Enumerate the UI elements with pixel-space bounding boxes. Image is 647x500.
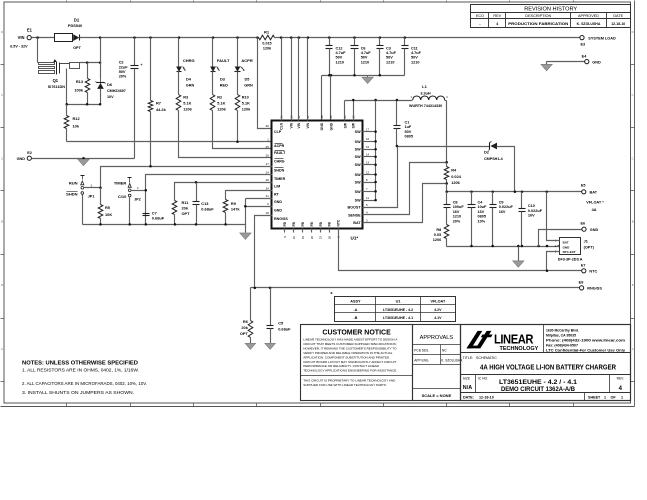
svg-text:16V: 16V <box>453 210 460 214</box>
svg-text:D5: D5 <box>245 78 250 82</box>
svg-text:R2: R2 <box>217 95 222 99</box>
svg-text:E7: E7 <box>581 264 586 268</box>
svg-text:CUSTOMER NOTICE: CUSTOMER NOTICE <box>322 330 391 337</box>
svg-text:R3: R3 <box>183 95 188 99</box>
svg-text:SUPPLIED FOR USE WITH LINEAR T: SUPPLIED FOR USE WITH LINEAR TECHNOLOGY … <box>303 383 387 387</box>
svg-text:10k: 10k <box>73 123 80 128</box>
svg-text:GND: GND <box>17 157 26 161</box>
svg-text:SCHEMATIC: SCHEMATIC <box>476 356 497 360</box>
svg-text:BOOST: BOOST <box>347 206 361 210</box>
svg-text:FB: FB <box>283 221 287 226</box>
svg-text:50V: 50V <box>386 56 393 60</box>
svg-text:100uF: 100uF <box>453 205 465 209</box>
svg-text:1uF: 1uF <box>405 125 412 129</box>
svg-text:+: + <box>141 63 143 67</box>
svg-text:0.68uF: 0.68uF <box>201 207 214 212</box>
svg-text:J1: J1 <box>584 239 588 243</box>
svg-text:VFLOAT *: VFLOAT * <box>586 200 604 204</box>
svg-text:1210: 1210 <box>453 215 461 219</box>
svg-text:K. SZOLUSHA: K. SZOLUSHA <box>577 22 601 26</box>
svg-text:TIMER: TIMER <box>114 181 127 186</box>
svg-text:17: 17 <box>366 127 370 131</box>
svg-text:A: A <box>1 347 3 351</box>
svg-text:C8: C8 <box>453 200 458 204</box>
svg-text:C12: C12 <box>336 46 343 50</box>
svg-text:FAULT: FAULT <box>274 151 286 155</box>
svg-text:147k: 147k <box>231 206 240 211</box>
svg-text:0.68uF: 0.68uF <box>278 326 291 331</box>
svg-text:20: 20 <box>310 236 314 240</box>
svg-text:FB: FB <box>319 221 323 226</box>
svg-text:C2: C2 <box>119 61 124 65</box>
svg-text:OPT: OPT <box>182 211 191 216</box>
svg-text:-B: -B <box>354 316 358 320</box>
svg-text:CHRG: CHRG <box>274 160 285 164</box>
svg-text:1206: 1206 <box>433 238 441 242</box>
svg-text:R5: R5 <box>105 205 111 210</box>
svg-text:C6: C6 <box>361 46 366 50</box>
svg-text:SHDN: SHDN <box>66 192 77 197</box>
svg-text:U1*: U1* <box>351 235 359 240</box>
svg-text:1206: 1206 <box>242 108 250 112</box>
svg-text:Q1: Q1 <box>53 78 59 83</box>
svg-text:GRN: GRN <box>186 84 195 88</box>
svg-text:VIN: VIN <box>306 122 310 128</box>
svg-text:GND: GND <box>590 228 599 232</box>
svg-text:NOTES: UNLESS OTHERWISE SPECIF: NOTES: UNLESS OTHERWISE SPECIFIED <box>22 361 138 367</box>
svg-text:FAULT: FAULT <box>217 58 230 63</box>
svg-text:3. INSTALL SHUNTS ON JUMPERS A: 3. INSTALL SHUNTS ON JUMPERS AS SHOWN. <box>22 390 134 395</box>
svg-text:0.024: 0.024 <box>451 174 462 179</box>
svg-text:ECO: ECO <box>476 14 484 18</box>
svg-text:4.7uF: 4.7uF <box>411 51 422 55</box>
svg-text:28: 28 <box>328 236 332 240</box>
svg-text:27: 27 <box>266 162 270 166</box>
svg-text:BAT: BAT <box>353 221 361 225</box>
svg-text:0.022uF: 0.022uF <box>499 205 514 209</box>
svg-text:WURTH 744314330: WURTH 744314330 <box>409 104 442 108</box>
svg-text:R4: R4 <box>451 168 457 173</box>
svg-text:C9: C9 <box>499 200 504 204</box>
svg-text:SW: SW <box>355 140 361 144</box>
svg-text:R12: R12 <box>73 116 81 121</box>
svg-text:CMPSH1-4: CMPSH1-4 <box>484 157 504 161</box>
svg-text:D: D <box>1 30 3 34</box>
svg-text:C5: C5 <box>278 320 284 325</box>
svg-text:(OPT): (OPT) <box>584 245 595 249</box>
svg-text:10V: 10V <box>107 95 114 99</box>
svg-text:16: 16 <box>366 137 370 141</box>
svg-text:NTC: NTC <box>337 219 341 226</box>
svg-text:SW: SW <box>355 199 361 203</box>
svg-text:0805: 0805 <box>405 135 413 139</box>
svg-text:GND: GND <box>592 60 601 64</box>
svg-text:5.1K: 5.1K <box>242 102 250 106</box>
svg-text:4: 4 <box>496 22 498 26</box>
svg-text:D6: D6 <box>107 82 113 87</box>
svg-text:0.015: 0.015 <box>262 41 271 45</box>
svg-text:36: 36 <box>266 124 270 128</box>
svg-text:CLN: CLN <box>279 122 283 129</box>
svg-text:20%: 20% <box>119 75 127 79</box>
svg-text:SW: SW <box>343 122 347 128</box>
svg-text:4.7uF: 4.7uF <box>361 51 372 55</box>
svg-text:10: 10 <box>292 236 296 240</box>
svg-text:IC NO.: IC NO. <box>478 376 488 380</box>
svg-text:APPLICATION. COMPONENT SUBSTI: APPLICATION. COMPONENT SUBSTITUTION AND … <box>303 355 390 359</box>
svg-text:34: 34 <box>266 186 270 190</box>
svg-text:SW: SW <box>355 173 361 177</box>
svg-text:CMHZ4697: CMHZ4697 <box>107 89 126 93</box>
svg-text:D2: D2 <box>484 149 490 154</box>
svg-text:A: A <box>632 347 634 351</box>
svg-text:PDS540: PDS540 <box>68 24 82 28</box>
svg-text:100k: 100k <box>74 88 83 93</box>
svg-text:PERFORMANCE OR RELIABILITY. C: PERFORMANCE OR RELIABILITY. CONTACT LINE… <box>303 364 379 368</box>
svg-text:APP ENG.: APP ENG. <box>414 359 429 363</box>
svg-text:LINEAR: LINEAR <box>494 332 533 346</box>
svg-text:6.5V - 32V: 6.5V - 32V <box>10 45 28 49</box>
svg-text:TECHNOLOGY: TECHNOLOGY <box>500 346 539 352</box>
svg-text:4.7uF: 4.7uF <box>386 51 397 55</box>
svg-text:1210: 1210 <box>386 60 394 64</box>
svg-text:B: B <box>1 283 3 287</box>
svg-text:C: C <box>632 157 634 161</box>
svg-text:LT3651EUHE - 4.2 / - 4.1: LT3651EUHE - 4.2 / - 4.1 <box>499 379 578 386</box>
svg-text:10uF: 10uF <box>478 205 488 209</box>
svg-text:NC: NC <box>442 349 447 353</box>
svg-text:1: 1 <box>621 396 623 400</box>
svg-text:20k: 20k <box>182 205 189 210</box>
svg-text:50V: 50V <box>411 56 418 60</box>
svg-text:19: 19 <box>301 236 305 240</box>
svg-text:LT3651EUHE - 4.2: LT3651EUHE - 4.2 <box>383 308 413 312</box>
svg-text:44.2k: 44.2k <box>156 107 167 112</box>
svg-text:4A HIGH VOLTAGE LI-ION BATTERY: 4A HIGH VOLTAGE LI-ION BATTERY CHARGER <box>480 365 616 372</box>
svg-text:R8: R8 <box>436 228 441 232</box>
svg-text:GRN: GRN <box>244 84 253 88</box>
svg-text:10%: 10% <box>478 220 486 224</box>
svg-text:4.2V: 4.2V <box>434 308 442 312</box>
svg-text:JP2: JP2 <box>134 198 141 202</box>
svg-text:1. ALL RESISTORS ARE IN OHMS,: 1. ALL RESISTORS ARE IN OHMS, 0402, 1%, … <box>22 368 139 373</box>
svg-text:GND: GND <box>274 208 282 212</box>
svg-text:12: 12 <box>366 170 370 174</box>
svg-text:THIS CIRCUIT IS PROPRIETARY TO: THIS CIRCUIT IS PROPRIETARY TO LINEAR TE… <box>303 378 396 382</box>
svg-text:SW: SW <box>355 163 361 167</box>
svg-text:31: 31 <box>306 115 310 119</box>
svg-text:R6: R6 <box>243 319 249 324</box>
svg-text:SHEET: SHEET <box>588 396 601 400</box>
svg-text:50V: 50V <box>119 70 126 74</box>
svg-text:REV: REV <box>493 14 501 18</box>
svg-text:C: C <box>1 93 3 97</box>
svg-text:NTC-EXT: NTC-EXT <box>563 250 576 254</box>
svg-text:FB: FB <box>301 221 305 226</box>
svg-text:SIZE: SIZE <box>463 376 471 380</box>
svg-text:SYSTEM LOAD: SYSTEM LOAD <box>588 36 616 40</box>
svg-text:REV.: REV. <box>617 376 625 380</box>
svg-text:E2: E2 <box>27 151 32 155</box>
svg-text:4.7uF: 4.7uF <box>336 51 347 55</box>
svg-text:R7: R7 <box>156 101 161 106</box>
svg-text:SENSE: SENSE <box>348 213 361 217</box>
svg-text:18: 18 <box>266 211 270 215</box>
svg-text:OF: OF <box>611 396 617 400</box>
svg-text:4A: 4A <box>592 208 597 212</box>
svg-text:0.68uF: 0.68uF <box>152 216 165 221</box>
svg-text:B: B <box>1 220 3 224</box>
svg-text:B: B <box>632 220 634 224</box>
svg-text:VIN: VIN <box>18 35 25 40</box>
svg-text:D3: D3 <box>220 78 225 82</box>
svg-text:3.3uH: 3.3uH <box>420 91 431 95</box>
svg-text:ACPR: ACPR <box>241 58 252 63</box>
svg-text:RUN: RUN <box>69 180 78 185</box>
svg-text:L1: L1 <box>422 84 427 89</box>
svg-text:SCALE = NONE: SCALE = NONE <box>422 393 452 398</box>
svg-text:APPROVED: APPROVED <box>578 14 599 18</box>
svg-text:LT3651EUHE - 4.1: LT3651EUHE - 4.1 <box>383 316 413 320</box>
svg-text:C3: C3 <box>386 46 391 50</box>
svg-text:0.05: 0.05 <box>434 233 441 237</box>
svg-text:B: B <box>632 283 634 287</box>
svg-text:HOWEVER, IT REMAINS THE CUSTOM: HOWEVER, IT REMAINS THE CUSTOMER'S RESPO… <box>303 346 397 350</box>
svg-text:5.1K: 5.1K <box>183 102 191 106</box>
svg-text:VIN: VIN <box>297 122 301 128</box>
svg-text:24: 24 <box>266 171 270 175</box>
svg-text:E6: E6 <box>580 221 585 225</box>
svg-text:RED: RED <box>220 84 228 88</box>
svg-text:VIN: VIN <box>290 122 294 128</box>
svg-text:22: 22 <box>343 115 347 119</box>
svg-text:50V: 50V <box>336 56 343 60</box>
svg-text:DATE:: DATE: <box>463 396 474 400</box>
svg-text:C/10: C/10 <box>118 194 127 199</box>
svg-text:ACPR: ACPR <box>274 144 285 148</box>
svg-text:16V: 16V <box>499 210 506 214</box>
svg-text:0.022uF: 0.022uF <box>528 209 543 213</box>
svg-text:2. ALL CAPACITORS ARE IN MICRO: 2. ALL CAPACITORS ARE IN MICROFARADS, 04… <box>22 381 147 386</box>
svg-text:SW: SW <box>355 148 361 152</box>
svg-text:1206: 1206 <box>183 108 191 112</box>
svg-text:TITLE:: TITLE: <box>463 356 474 360</box>
svg-text:REVISION HISTORY: REVISION HISTORY <box>524 7 577 13</box>
svg-text:JP1: JP1 <box>88 194 95 198</box>
svg-text:1206: 1206 <box>263 46 271 50</box>
svg-text:22uF: 22uF <box>119 65 129 69</box>
svg-text:R10: R10 <box>242 95 249 99</box>
svg-text:D: D <box>632 30 634 34</box>
svg-text:23: 23 <box>319 236 323 240</box>
svg-text:16V: 16V <box>478 210 485 214</box>
svg-text:GND: GND <box>274 200 282 204</box>
svg-text:21: 21 <box>266 194 270 198</box>
svg-text:1210: 1210 <box>361 60 369 64</box>
svg-text:12-18-10: 12-18-10 <box>611 22 625 26</box>
svg-text:DATE: DATE <box>613 14 623 18</box>
svg-text:-A: -A <box>354 308 358 312</box>
svg-text:RNG/SS: RNG/SS <box>274 217 288 221</box>
svg-text:SW: SW <box>352 122 356 128</box>
svg-text:BAT: BAT <box>590 190 598 194</box>
svg-text:E1: E1 <box>27 27 33 32</box>
svg-text:12-18-10: 12-18-10 <box>479 396 494 400</box>
svg-text:SW: SW <box>355 130 361 134</box>
svg-text:E8: E8 <box>579 281 584 285</box>
svg-text:D1: D1 <box>74 18 80 23</box>
svg-text:28: 28 <box>266 178 270 182</box>
svg-text:0805: 0805 <box>478 215 486 219</box>
svg-text:GND: GND <box>563 245 571 249</box>
svg-text:1206: 1206 <box>217 108 225 112</box>
svg-text:DEMO CIRCUIT 1362A-A/B: DEMO CIRCUIT 1362A-A/B <box>501 386 575 393</box>
svg-text:C11: C11 <box>411 46 418 50</box>
svg-text:1210: 1210 <box>411 60 419 64</box>
svg-text:APPROVALS: APPROVALS <box>420 335 454 341</box>
svg-text:R9: R9 <box>231 201 237 206</box>
svg-text:C1: C1 <box>405 121 410 125</box>
svg-text:SW: SW <box>355 155 361 159</box>
svg-text:TECHNOLOGY APPLICATIONS ENGINE: TECHNOLOGY APPLICATIONS ENGINEERING FOR … <box>303 369 397 373</box>
svg-text:5.1K: 5.1K <box>217 102 225 106</box>
svg-text:E5: E5 <box>581 184 586 188</box>
svg-text:U1: U1 <box>396 300 401 304</box>
svg-text:50V: 50V <box>405 130 412 134</box>
svg-text:1206: 1206 <box>451 180 460 185</box>
svg-text:GND: GND <box>320 122 324 130</box>
svg-text:C13: C13 <box>201 201 209 206</box>
svg-text:15: 15 <box>366 145 370 149</box>
svg-text:E3: E3 <box>580 43 585 47</box>
svg-text:1: 1 <box>604 396 606 400</box>
svg-text:C: C <box>1 157 3 161</box>
svg-text:N/A: N/A <box>463 385 472 391</box>
svg-text:4.1V: 4.1V <box>434 316 442 320</box>
svg-text:Si7611DN: Si7611DN <box>48 85 66 89</box>
svg-text:SW: SW <box>355 180 361 184</box>
svg-text:VFLOAT: VFLOAT <box>430 300 446 304</box>
svg-text:20%: 20% <box>453 220 461 224</box>
svg-text:VERIFY PROPER AND RELIABLE OPE: VERIFY PROPER AND RELIABLE OPERATION IN … <box>303 351 393 355</box>
svg-text:R13: R13 <box>76 79 84 84</box>
svg-text:PCB DES.: PCB DES. <box>414 349 429 353</box>
svg-text:23: 23 <box>329 115 333 119</box>
svg-text:CIRCUIT BOARD LAYOUT MAY SIGNI: CIRCUIT BOARD LAYOUT MAY SIGNIFICANTLY A… <box>303 360 396 364</box>
svg-text:ASSY: ASSY <box>350 300 361 304</box>
svg-text:NTC: NTC <box>589 269 597 273</box>
svg-text:CHRG: CHRG <box>183 58 195 63</box>
svg-text:1210: 1210 <box>336 60 344 64</box>
svg-text:GND: GND <box>329 122 333 130</box>
svg-text:25: 25 <box>266 145 270 149</box>
svg-text:DF3-3P-2DS A: DF3-3P-2DS A <box>558 258 583 262</box>
svg-text:LTC Confidential-For Customer: LTC Confidential-For Customer Use Only <box>546 348 626 353</box>
svg-text:11: 11 <box>366 196 369 200</box>
svg-text:16V: 16V <box>528 214 535 218</box>
svg-text:PRODUCTION FABRICATION: PRODUCTION FABRICATION <box>508 22 569 26</box>
svg-text:CIRCUIT THAT MEETS CUSTOMER-SU: CIRCUIT THAT MEETS CUSTOMER-SUPPLIED SPE… <box>303 342 396 346</box>
svg-text:FB: FB <box>310 221 314 226</box>
svg-text:L/M: L/M <box>274 184 280 188</box>
svg-text:SHDN: SHDN <box>274 168 285 172</box>
svg-text:50V: 50V <box>361 56 368 60</box>
svg-text:10K: 10K <box>105 212 112 217</box>
svg-text:DESCRIPTION: DESCRIPTION <box>525 14 551 18</box>
svg-text:RT: RT <box>274 193 280 197</box>
svg-text:R11: R11 <box>182 200 190 205</box>
svg-text:R1: R1 <box>264 30 270 35</box>
svg-text:TIMER: TIMER <box>274 177 286 181</box>
svg-text:13: 13 <box>366 161 370 165</box>
svg-text:FB: FB <box>292 221 296 226</box>
svg-text:26: 26 <box>266 153 270 157</box>
svg-text:SW: SW <box>355 190 361 194</box>
svg-text:LINEAR TECHNOLOGY HAS MADE A B: LINEAR TECHNOLOGY HAS MADE A BEST EFFORT… <box>303 337 398 341</box>
svg-text:RNG/SS: RNG/SS <box>587 287 602 291</box>
svg-text:29: 29 <box>320 115 324 119</box>
svg-text:C: C <box>632 93 634 97</box>
svg-text:OPT: OPT <box>73 46 81 50</box>
svg-text:20k: 20k <box>241 325 248 330</box>
svg-text:OPT: OPT <box>240 331 249 336</box>
svg-text:FB: FB <box>328 221 332 226</box>
svg-text:C10: C10 <box>528 204 535 208</box>
svg-text:BAT: BAT <box>563 241 569 245</box>
